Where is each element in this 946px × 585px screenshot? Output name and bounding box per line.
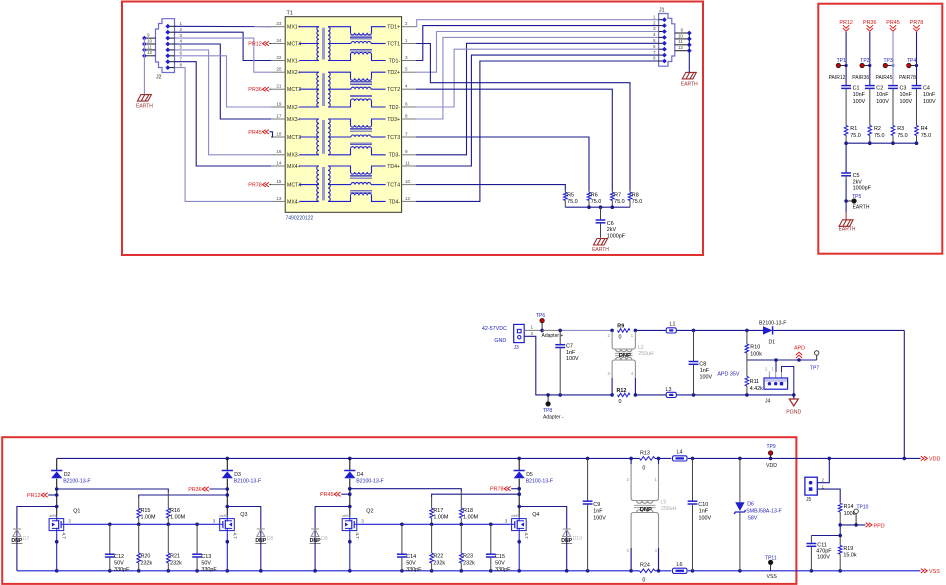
svg-text:VSS: VSS: [767, 574, 778, 580]
transistor Q4: [517, 505, 521, 509]
svg-text:C8: C8: [699, 361, 706, 367]
svg-text:MCT4: MCT4: [287, 41, 301, 47]
resistor R20 232k: [138, 524, 140, 553]
svg-text:J5: J5: [806, 497, 812, 503]
svg-text:16: 16: [276, 149, 282, 154]
J1 pin 12: [675, 50, 690, 52]
test point TP8 Adapter-: [546, 393, 550, 397]
svg-text:PR45: PR45: [248, 130, 262, 136]
wire TCT4 to R5: [416, 185, 565, 191]
svg-text:PAIR45: PAIR45: [876, 75, 893, 81]
svg-text:10nF: 10nF: [900, 92, 913, 98]
svg-text:232k: 232k: [170, 560, 182, 566]
svg-text:R17: R17: [433, 508, 443, 514]
svg-text:MX2-: MX2-: [287, 105, 300, 111]
svg-text:18: 18: [276, 131, 282, 136]
capacitor C1 10nF 100V: [845, 85, 847, 87]
svg-text:2kV: 2kV: [607, 227, 617, 233]
svg-text:Adapter -: Adapter -: [543, 414, 564, 420]
connector J3: [514, 324, 525, 342]
wire cross-couple row 1: [57, 489, 169, 492]
svg-text:MX2+: MX2+: [287, 70, 301, 76]
svg-text:7: 7: [405, 131, 408, 136]
capacitor C6 2kV 1000pF: [600, 207, 602, 220]
junction dots VSS rail: [55, 569, 59, 573]
J2 pin 10: [144, 43, 155, 45]
svg-text:13: 13: [276, 196, 282, 201]
svg-text:1: 1: [531, 325, 534, 330]
svg-text:R20: R20: [141, 554, 151, 560]
wire PR36 column: [869, 32, 871, 86]
connector J5: [805, 477, 817, 495]
wire J1 shield to earth: [688, 33, 690, 72]
svg-text:T1: T1: [287, 11, 293, 17]
svg-text:470pF: 470pF: [816, 549, 832, 555]
border box 2 (pair termination section): [818, 4, 942, 254]
svg-text:DNP: DNP: [310, 538, 321, 544]
J1 pin 5: [659, 42, 665, 44]
diode D4 B2100-13-F: [349, 458, 351, 470]
earth symbol below J2: [137, 95, 151, 102]
svg-text:75.0: 75.0: [921, 133, 932, 139]
svg-text:R16: R16: [170, 508, 180, 514]
test point TP6 Adapter+: [540, 318, 544, 322]
svg-text:12: 12: [147, 50, 153, 55]
svg-text:58V: 58V: [748, 515, 758, 521]
svg-text:R14: R14: [844, 504, 854, 510]
port flag VDD: [921, 456, 927, 460]
T1 winding group 3: [299, 119, 385, 155]
svg-text:1: 1: [653, 14, 656, 19]
svg-text:R18: R18: [463, 508, 473, 514]
wire gate rail: [66, 523, 219, 525]
svg-text:APD: APD: [794, 346, 805, 352]
capacitor C2 10nF 100V: [869, 85, 871, 87]
svg-text:R2: R2: [874, 126, 881, 132]
wire J2 pin 2 to T1: [175, 32, 272, 60]
svg-text:2: 2: [822, 478, 825, 483]
svg-text:C5: C5: [853, 173, 860, 179]
svg-text:PAIR36: PAIR36: [852, 75, 869, 81]
resistor R6 75.0: [588, 191, 590, 193]
svg-text:4.7: 4.7: [355, 533, 360, 540]
svg-text:Q3: Q3: [240, 512, 247, 518]
resistor R23 232k: [460, 524, 462, 553]
svg-text:Q2: Q2: [366, 508, 373, 514]
capacitor C12 50V 330pF: [109, 524, 111, 554]
J2 pin 5: [168, 49, 175, 51]
svg-text:R21: R21: [170, 554, 180, 560]
J2 pin 9: [144, 37, 155, 39]
connector J4: [775, 360, 777, 372]
svg-text:22: 22: [276, 55, 282, 60]
svg-text:14: 14: [276, 160, 282, 165]
svg-text:B2100-13-F: B2100-13-F: [63, 478, 90, 484]
svg-text:75.0: 75.0: [850, 133, 861, 139]
svg-text:20: 20: [276, 67, 282, 72]
wire J5 pin 2 to VDD: [817, 458, 829, 482]
svg-text:PR78: PR78: [910, 20, 924, 26]
svg-text:R23: R23: [463, 554, 473, 560]
svg-text:ufefN: ufefN: [342, 514, 350, 518]
svg-text:L6: L6: [677, 562, 683, 568]
svg-text:1nF: 1nF: [566, 350, 576, 356]
net label PR12 at T1: [270, 43, 272, 45]
svg-text:R1: R1: [850, 126, 857, 132]
svg-text:9: 9: [405, 149, 408, 154]
J2 pin 1: [168, 25, 175, 27]
J2 pin 3: [168, 37, 175, 39]
wire J2 pin 6 to T1: [175, 56, 272, 107]
svg-text:R5: R5: [567, 192, 574, 198]
svg-text:7: 7: [180, 56, 183, 61]
svg-text:DNP: DNP: [619, 353, 631, 359]
T1 winding group 2: [299, 72, 385, 107]
svg-text:4.7: 4.7: [62, 533, 67, 540]
svg-text:232k: 232k: [141, 560, 153, 566]
svg-text:DNP: DNP: [561, 538, 572, 544]
J2 pin 11: [144, 49, 155, 51]
svg-text:TD4-: TD4-: [389, 199, 401, 205]
svg-text:MX4+: MX4+: [287, 164, 301, 170]
wire TD2+ to J1 pin 3: [416, 32, 659, 73]
junction dots on termination rail: [587, 205, 591, 209]
J2 pin 6: [168, 55, 175, 57]
transformer L2 250uH DNP: [612, 332, 635, 395]
diode D5 B2100-13-F: [518, 458, 520, 470]
svg-text:ufefN: ufefN: [219, 514, 227, 518]
diode D8 DNP: [227, 507, 260, 571]
J3 pin 1 wire: [524, 329, 542, 331]
wire VDD rail: [57, 457, 640, 459]
svg-text:3: 3: [213, 519, 216, 524]
svg-text:C7: C7: [566, 344, 573, 350]
J1 pin 7: [659, 54, 665, 56]
svg-text:100V: 100V: [593, 515, 606, 521]
svg-text:0: 0: [642, 578, 645, 584]
port flag PPD: [866, 523, 872, 527]
svg-text:R8: R8: [632, 192, 639, 198]
T1 winding group 1: [299, 27, 385, 61]
wire power top rail: [542, 329, 560, 331]
resistor R24 0: [640, 569, 655, 573]
diode D1 B2100-13-F: [745, 329, 749, 333]
wire cross-couple row 1: [350, 489, 462, 492]
capacitor C11 470pF 100V: [811, 535, 840, 537]
svg-text:MX3-: MX3-: [287, 153, 300, 159]
svg-text:330pF: 330pF: [114, 567, 130, 573]
capacitor C8 1nF 100V: [692, 329, 696, 333]
wire PR78 column: [916, 32, 918, 86]
svg-text:R22: R22: [433, 554, 443, 560]
svg-text:PR12: PR12: [839, 20, 853, 26]
J2 pin 7: [168, 61, 175, 63]
svg-text:D3: D3: [234, 472, 241, 478]
transformer L5 250uH DNP: [631, 458, 658, 570]
svg-text:10: 10: [405, 179, 411, 184]
transistor Q1: [55, 505, 59, 509]
svg-text:75.0: 75.0: [567, 199, 578, 205]
inductor L3: [666, 392, 676, 397]
svg-text:10: 10: [678, 33, 684, 38]
capacitor C13 50V 330pF: [196, 524, 198, 554]
diode D6 SMBJ58A-13-F 58V: [739, 458, 741, 502]
svg-text:L2: L2: [638, 345, 644, 351]
net label PR36 at T1: [270, 88, 272, 90]
svg-text:5: 5: [180, 45, 183, 50]
svg-text:250uH: 250uH: [661, 506, 677, 512]
svg-text:9: 9: [680, 27, 683, 32]
svg-text:2kV: 2kV: [853, 179, 863, 185]
svg-text:3: 3: [180, 33, 183, 38]
svg-text:50V: 50V: [495, 561, 505, 567]
earth symbol box2: [839, 220, 853, 227]
svg-text:15.0k: 15.0k: [843, 553, 856, 559]
svg-text:3: 3: [653, 26, 656, 31]
inductor L4: [673, 456, 688, 461]
wire D1 to VDD rail: [903, 330, 905, 458]
svg-text:5: 5: [653, 38, 656, 43]
svg-text:PR36: PR36: [188, 487, 202, 493]
svg-text:PR78: PR78: [248, 183, 262, 189]
inductor L1: [666, 328, 676, 333]
svg-text:10nF: 10nF: [853, 92, 866, 98]
wire gate rail: [359, 523, 511, 525]
capacitor C4 10nF 100V: [916, 85, 918, 87]
resistor R11 4.42k: [746, 360, 748, 377]
svg-text:EARTH: EARTH: [853, 205, 870, 211]
svg-text:MCT2: MCT2: [287, 87, 301, 93]
svg-text:VSS: VSS: [929, 569, 940, 575]
svg-text:DNP: DNP: [11, 538, 22, 544]
J1 pin 10: [675, 38, 690, 40]
svg-text:PAIR78: PAIR78: [899, 75, 916, 81]
wire J2 pin 7 to T1: [175, 62, 272, 166]
svg-text:TD4+: TD4+: [387, 164, 400, 170]
resistor R21 232k: [167, 524, 169, 553]
svg-text:2: 2: [180, 27, 183, 32]
wire termination rail: [565, 206, 630, 208]
svg-text:250uH: 250uH: [638, 351, 654, 357]
svg-text:1nF: 1nF: [700, 368, 710, 374]
svg-text:L5: L5: [661, 499, 667, 505]
J1 pin 6: [659, 48, 665, 50]
wire APD node: [747, 359, 817, 361]
svg-text:1: 1: [822, 484, 825, 489]
svg-text:1nF: 1nF: [593, 509, 603, 515]
power ground PGND: [793, 395, 795, 399]
border box 1 (magnetics section): [122, 2, 703, 256]
svg-text:6: 6: [180, 51, 183, 56]
border box 3 (bridge section): [2, 437, 796, 584]
svg-text:330pF: 330pF: [495, 567, 511, 573]
svg-text:Q1: Q1: [73, 508, 80, 514]
svg-text:4: 4: [180, 39, 183, 44]
svg-text:B2100-13-F: B2100-13-F: [526, 478, 553, 484]
svg-text:7490220122: 7490220122: [286, 216, 314, 222]
wire cross-couple row 2: [139, 495, 228, 498]
svg-text:TP11: TP11: [765, 555, 777, 561]
wire PPD node: [840, 524, 865, 526]
earth symbol below C6: [594, 239, 608, 246]
svg-text:100V: 100V: [700, 375, 713, 381]
svg-text:8: 8: [653, 56, 656, 61]
svg-text:75.0: 75.0: [591, 199, 602, 205]
svg-text:TP6: TP6: [536, 313, 545, 319]
J2 pin 8: [168, 67, 175, 69]
svg-text:TP9: TP9: [767, 444, 776, 450]
svg-text:C2: C2: [876, 85, 883, 91]
svg-text:PR36: PR36: [248, 87, 262, 93]
svg-text:10nF: 10nF: [923, 92, 936, 98]
J2 pin 4: [168, 43, 175, 45]
connector J1: [659, 14, 675, 67]
svg-text:D1: D1: [769, 340, 776, 346]
svg-text:PR45: PR45: [886, 20, 900, 26]
svg-text:J1: J1: [659, 8, 665, 14]
J1 pin 1: [659, 19, 665, 21]
resistor R8 75.0: [629, 191, 631, 193]
svg-text:1.00M: 1.00M: [463, 515, 478, 521]
svg-text:C1: C1: [853, 85, 860, 91]
svg-text:C10: C10: [698, 502, 708, 508]
svg-text:B2100-13-F: B2100-13-F: [356, 478, 383, 484]
svg-text:J2: J2: [156, 75, 162, 81]
svg-text:TP7: TP7: [810, 365, 819, 371]
svg-text:GND: GND: [494, 338, 506, 344]
wire power bottom rail right segment: [747, 394, 794, 396]
svg-text:ufefN: ufefN: [511, 514, 519, 518]
svg-text:J3: J3: [514, 345, 520, 351]
resistor R4 75.0: [916, 124, 918, 126]
svg-text:10nF: 10nF: [876, 92, 889, 98]
svg-text:2: 2: [405, 21, 408, 26]
wire TD2- to J1 pin 6: [416, 49, 659, 107]
svg-text:MX4-: MX4-: [287, 199, 300, 205]
svg-text:4.42k: 4.42k: [750, 386, 763, 392]
resistor R2 75.0: [869, 124, 871, 126]
svg-text:EARTH: EARTH: [681, 82, 698, 88]
svg-text:0: 0: [619, 399, 622, 405]
wire J2 pin 1 to T1: [175, 25, 272, 27]
svg-text:1: 1: [180, 21, 183, 26]
wire J2 shield to earth: [143, 38, 145, 95]
svg-text:EARTH: EARTH: [592, 247, 609, 253]
svg-text:APD 35V: APD 35V: [717, 372, 740, 378]
svg-text:100V: 100V: [923, 99, 936, 105]
svg-text:J4: J4: [765, 399, 771, 405]
resistor R5 75.0: [564, 191, 566, 193]
wire J5 pin 1 to R14: [817, 489, 840, 502]
svg-text:TCT3: TCT3: [387, 135, 400, 141]
diode D2 B2100-13-F: [56, 458, 58, 470]
svg-text:DNP: DNP: [640, 507, 652, 513]
svg-text:R24: R24: [640, 563, 650, 569]
svg-text:3: 3: [68, 519, 71, 524]
svg-text:1000pF: 1000pF: [607, 234, 626, 240]
svg-text:50V: 50V: [114, 561, 124, 567]
svg-text:TP8: TP8: [543, 408, 552, 414]
svg-text:19: 19: [276, 101, 282, 106]
svg-text:0: 0: [619, 335, 622, 341]
resistor R15 1.00M: [138, 498, 140, 508]
svg-text:R11: R11: [750, 379, 760, 385]
svg-text:75.0: 75.0: [632, 199, 643, 205]
svg-text:L3: L3: [666, 387, 672, 393]
svg-text:4: 4: [405, 84, 408, 89]
svg-text:75.0: 75.0: [897, 133, 908, 139]
svg-text:R12: R12: [617, 388, 627, 394]
svg-text:D8: D8: [267, 536, 274, 542]
svg-text:B2100-13-F: B2100-13-F: [759, 320, 786, 326]
svg-text:D5: D5: [526, 472, 533, 478]
svg-text:VDD: VDD: [929, 457, 940, 463]
wire TD3- to J1 pin 5: [416, 43, 659, 155]
net label PR78 at T1: [270, 184, 272, 186]
svg-text:D4: D4: [357, 472, 364, 478]
svg-text:15: 15: [276, 179, 282, 184]
svg-text:D9: D9: [321, 536, 328, 542]
wire TCT2 to R7: [416, 89, 612, 190]
wire J2 pin 5 to T1: [175, 50, 272, 155]
svg-text:100V: 100V: [900, 99, 913, 105]
wire PR45 column: [892, 32, 894, 86]
J2 pin 12: [144, 55, 155, 57]
resistor R10 100k: [746, 330, 748, 344]
svg-text:1000pF: 1000pF: [853, 186, 872, 192]
svg-text:100V: 100V: [853, 99, 866, 105]
wire cross-couple row 2: [432, 494, 520, 497]
svg-text:3: 3: [405, 55, 408, 60]
svg-text:100V: 100V: [876, 99, 889, 105]
svg-text:C4: C4: [923, 85, 930, 91]
svg-text:D6: D6: [747, 501, 754, 507]
wire TD4+ to J1 pin 7: [416, 55, 659, 166]
svg-text:PAIR12: PAIR12: [829, 75, 846, 81]
svg-text:MCT4: MCT4: [287, 183, 301, 189]
svg-text:42-57VDC: 42-57VDC: [482, 326, 507, 332]
svg-text:R7: R7: [614, 192, 621, 198]
svg-text:L4: L4: [677, 450, 683, 456]
svg-text:7: 7: [653, 50, 656, 55]
svg-text:MX1-: MX1-: [287, 58, 300, 64]
svg-text:R3: R3: [897, 126, 904, 132]
svg-text:EARTH: EARTH: [136, 104, 153, 110]
connector J2: [156, 19, 175, 73]
svg-text:C9: C9: [593, 502, 600, 508]
svg-text:VDD: VDD: [766, 463, 777, 469]
transistor Q3: [226, 505, 230, 509]
svg-text:4: 4: [653, 32, 656, 37]
svg-text:11: 11: [147, 44, 152, 49]
wire J2 pin 3 to T1: [175, 38, 272, 72]
svg-text:ufefN: ufefN: [49, 514, 57, 518]
svg-text:50V: 50V: [201, 561, 211, 567]
J3 pin 2 wire: [524, 336, 548, 395]
svg-text:6: 6: [653, 44, 656, 49]
wire TD4- to J1 pin 8: [416, 61, 659, 201]
svg-text:100V: 100V: [699, 515, 712, 521]
resistor R19 15.0k: [839, 536, 841, 546]
svg-text:TCT2: TCT2: [387, 87, 400, 93]
svg-text:R4: R4: [921, 126, 928, 132]
svg-text:PPD: PPD: [874, 523, 885, 529]
test point TP7: [816, 355, 818, 360]
svg-text:TD1-: TD1-: [389, 58, 401, 64]
capacitor C15 50V 330pF: [490, 524, 492, 554]
svg-text:MX3+: MX3+: [287, 117, 301, 123]
svg-text:PGND: PGND: [786, 410, 801, 416]
